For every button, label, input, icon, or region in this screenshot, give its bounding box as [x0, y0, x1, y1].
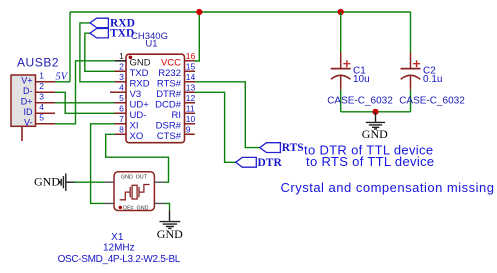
svg-text:6: 6	[119, 104, 124, 114]
svg-text:OE#: OE#	[123, 206, 134, 212]
USB pin names	[21, 75, 33, 127]
pin names left	[130, 58, 151, 143]
wire VCC pin16 drop	[195, 12, 199, 61]
svg-text:TXD: TXD	[130, 68, 149, 79]
svg-text:DCD#: DCD#	[155, 100, 182, 111]
IC right pin stubs	[185, 61, 196, 135]
svg-text:2: 2	[39, 81, 44, 91]
svg-text:XO: XO	[130, 131, 144, 142]
svg-text:GND: GND	[130, 58, 151, 69]
net flag DTR	[236, 157, 257, 167]
IC left pin stubs	[110, 71, 126, 134]
wire RTS# pin14 to RTS flag	[195, 82, 260, 148]
svg-text:DSR#: DSR#	[156, 121, 182, 132]
svg-text:V3: V3	[130, 89, 142, 100]
svg-text:RI: RI	[172, 110, 182, 121]
svg-text:14: 14	[186, 72, 196, 82]
svg-text:ID: ID	[24, 107, 34, 117]
svg-text:7: 7	[119, 114, 124, 124]
svg-text:V+: V+	[21, 75, 32, 85]
svg-text:10u: 10u	[353, 74, 370, 85]
svg-text:5: 5	[39, 113, 44, 123]
svg-text:V-: V-	[24, 117, 33, 127]
junction dot B	[338, 9, 344, 15]
svg-text:16: 16	[186, 51, 196, 61]
junction dot C	[372, 109, 378, 115]
crystal inner pin labels	[121, 175, 149, 212]
pin 1 stub (black)	[115, 60, 126, 62]
svg-text:4: 4	[39, 102, 44, 112]
svg-text:2: 2	[119, 62, 124, 72]
wire crystal GND right to ground	[165, 203, 170, 210]
IC U1 CH340G box	[126, 54, 185, 143]
svg-text:0.1u: 0.1u	[423, 74, 442, 85]
svg-text:R232: R232	[158, 68, 181, 79]
pin numbers right 16-9	[186, 51, 196, 135]
crystal pin 1 marker	[119, 206, 122, 209]
wire capacitor bottoms	[341, 111, 411, 113]
pin names right	[155, 58, 182, 143]
svg-text:Crystal and compensation missi: Crystal and compensation missing	[281, 180, 495, 195]
svg-text:1: 1	[39, 71, 44, 81]
svg-text:11: 11	[186, 104, 195, 114]
svg-text:4: 4	[119, 83, 124, 93]
wire GND symbol to crystal GND left	[75, 181, 105, 183]
svg-text:DTR: DTR	[258, 157, 283, 169]
svg-text:RTS: RTS	[282, 142, 304, 154]
wire RXD flag to pin3	[80, 23, 115, 82]
svg-text:D+: D+	[21, 96, 33, 106]
svg-text:TXD: TXD	[110, 28, 134, 40]
ground symbol left	[60, 173, 75, 191]
svg-text:GND: GND	[121, 175, 133, 181]
svg-text:UD-: UD-	[130, 110, 147, 121]
svg-text:3: 3	[119, 72, 124, 82]
wire DTR# pin13 to DTR flag	[195, 92, 236, 162]
USB connector AUSB2 box	[11, 75, 36, 126]
USB pin numbers	[39, 71, 44, 123]
crystal symbol	[120, 185, 150, 200]
USB pin stubs	[36, 82, 56, 124]
svg-text:to RTS of TTL device: to RTS of TTL device	[306, 154, 434, 169]
svg-text:8: 8	[119, 125, 124, 135]
svg-text:15: 15	[186, 62, 196, 72]
wire XI pin7 to crystal OE#	[91, 124, 115, 204]
svg-text:12: 12	[186, 93, 196, 103]
svg-text:UD+: UD+	[130, 100, 150, 111]
wire XO pin8 to crystal OUT	[106, 134, 169, 182]
svg-text:13: 13	[186, 83, 196, 93]
USB shield stub	[21, 126, 23, 141]
svg-text:XI: XI	[130, 121, 139, 132]
svg-text:GND: GND	[157, 227, 183, 241]
svg-text:GND: GND	[362, 127, 388, 141]
svg-text:VCC: VCC	[161, 58, 181, 69]
svg-text:CTS#: CTS#	[157, 131, 182, 142]
svg-text:1: 1	[119, 51, 124, 61]
svg-text:DTR#: DTR#	[156, 89, 182, 100]
crystal pin stubs	[105, 182, 165, 203]
svg-text:3: 3	[39, 92, 44, 102]
capacitor C2	[399, 12, 465, 112]
svg-text:X1: X1	[111, 232, 124, 243]
svg-text:RTS#: RTS#	[157, 79, 182, 90]
svg-text:CASE-C_6032: CASE-C_6032	[399, 96, 465, 107]
wire USB D- to pin6	[55, 92, 115, 113]
svg-text:10: 10	[186, 114, 196, 124]
wire TXD flag to pin2	[85, 33, 115, 71]
crystal X1 box	[114, 172, 154, 211]
svg-text:GND: GND	[34, 174, 60, 188]
wire GND pin1 to USB V-	[55, 61, 115, 124]
pin numbers left 1-8	[119, 51, 124, 135]
svg-text:RXD: RXD	[130, 79, 150, 90]
net flag TXD	[90, 29, 108, 38]
pin 1 marker dot	[129, 56, 133, 60]
wire USB D+ to pin5	[55, 102, 115, 104]
svg-text:12MHz: 12MHz	[103, 243, 135, 254]
svg-text:U1: U1	[145, 39, 157, 50]
net flag RTS	[260, 143, 281, 153]
svg-text:CASE-C_6032: CASE-C_6032	[327, 96, 393, 107]
wire 5V top rail	[55, 12, 411, 82]
svg-text:5: 5	[119, 93, 124, 103]
svg-text:5V: 5V	[56, 72, 69, 83]
svg-text:9: 9	[186, 125, 191, 135]
capacitor C1	[327, 12, 393, 112]
ground below crystal	[160, 211, 181, 229]
svg-text:GND: GND	[137, 206, 149, 212]
svg-text:OUT: OUT	[136, 175, 148, 181]
junction dot A	[196, 9, 202, 15]
ground below capacitors	[366, 112, 385, 129]
svg-text:AUSB2: AUSB2	[17, 55, 59, 69]
svg-text:OSC-SMD_4P-L3.2-W2.5-BL: OSC-SMD_4P-L3.2-W2.5-BL	[58, 254, 181, 265]
net flag RXD	[90, 18, 108, 27]
svg-text:D-: D-	[23, 86, 33, 96]
